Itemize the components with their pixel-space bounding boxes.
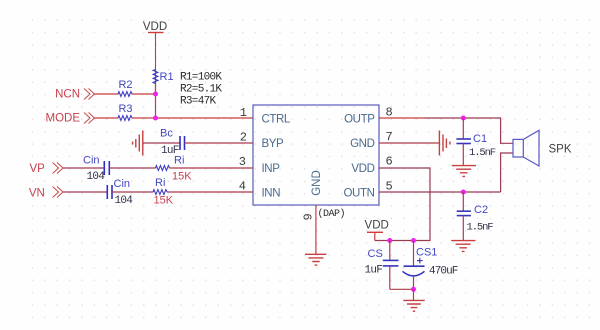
wire Bc to pin 2 BYP: [185, 142, 254, 144]
wire to supply ground: [413, 289, 415, 300]
wire MODE to R3: [95, 117, 119, 119]
resistor Ri (INN row): [153, 177, 174, 207]
svg-text:15K: 15K: [154, 195, 174, 207]
svg-text:1.5nF: 1.5nF: [467, 222, 494, 234]
junction OUTN/C2: [461, 190, 466, 195]
wire pin 5 OUTN: [379, 191, 501, 193]
svg-text:1: 1: [240, 106, 247, 120]
svg-text:C1: C1: [473, 133, 487, 145]
svg-text:BYP: BYP: [262, 138, 285, 150]
svg-text:Cin: Cin: [83, 155, 100, 167]
svg-text:15K: 15K: [172, 171, 192, 183]
port NCN: [55, 89, 94, 101]
svg-text:CTRL: CTRL: [262, 114, 291, 126]
resistor R3: [118, 103, 133, 120]
power flag VDD (bottom): [365, 220, 389, 241]
port VP: [29, 163, 63, 176]
wire OUTN node up to speaker: [501, 153, 513, 192]
wire VDD to R1 top: [155, 33, 157, 95]
svg-text:VDD: VDD: [351, 163, 374, 175]
svg-text:1uF: 1uF: [365, 265, 383, 277]
ground at CS/CS1: [403, 300, 424, 311]
wire OUTP node to speaker corner: [463, 118, 513, 143]
svg-text:Ri: Ri: [155, 177, 165, 189]
svg-text:GND: GND: [350, 138, 374, 150]
svg-text:470uF: 470uF: [429, 266, 458, 278]
svg-text:(DAP): (DAP): [318, 208, 346, 220]
wire Ri to pin 3 INP: [170, 167, 253, 169]
svg-text:VP: VP: [29, 163, 45, 175]
wire VN to Cin: [63, 191, 107, 193]
capacitor CS: [365, 241, 399, 290]
resistor Ri (INP row): [156, 155, 193, 183]
capacitor Cin (INP row): [83, 155, 109, 184]
svg-text:R3: R3: [118, 103, 132, 115]
power flag VDD (top): [143, 21, 167, 33]
svg-text:INP: INP: [262, 163, 281, 175]
wire R2 to node: [132, 93, 155, 95]
svg-text:104: 104: [87, 171, 106, 183]
svg-text:R2=5.1K: R2=5.1K: [180, 84, 222, 96]
junction OUTP/C1: [461, 116, 466, 121]
svg-text:R1: R1: [160, 71, 174, 83]
port VN: [29, 187, 63, 200]
wire pin 7 GND: [379, 142, 439, 144]
svg-text:104: 104: [115, 195, 134, 207]
ground (sideways) at pin 7: [439, 131, 450, 156]
wire R1 bottom to MODE node: [155, 85, 157, 119]
capacitor Bc: [160, 128, 185, 158]
wire CS/CS1 bottoms: [390, 288, 414, 290]
svg-text:2: 2: [240, 131, 247, 145]
svg-text:R2: R2: [118, 79, 132, 91]
svg-text:MODE: MODE: [46, 113, 81, 125]
wire pin 8 OUTP: [379, 117, 424, 119]
svg-text:CS: CS: [368, 248, 383, 260]
ground at C2: [451, 241, 475, 252]
svg-text:Ri: Ri: [174, 155, 184, 167]
speaker SPK: [513, 130, 572, 166]
junction MODE/R1 node: [153, 116, 158, 121]
wire pin 9 to ground: [315, 205, 317, 254]
junction CS1 bottom: [411, 287, 416, 292]
junction CS1 top: [411, 238, 416, 243]
wire pin 6 VDD to supply node: [375, 168, 430, 241]
ground at DAP: [305, 254, 326, 265]
wire ground to Bc: [143, 142, 180, 144]
wire Ri to pin 4 INN: [167, 191, 253, 193]
svg-text:1.5nF: 1.5nF: [469, 147, 496, 159]
svg-text:C2: C2: [474, 204, 488, 216]
op-amp U1 (audio amplifier IC): [253, 105, 379, 205]
wire R3 to pin 1 CTRL: [132, 117, 253, 119]
svg-text:VDD: VDD: [365, 220, 389, 232]
svg-text:OUTN: OUTN: [344, 188, 375, 200]
resistor R1: [153, 70, 173, 84]
svg-text:GND: GND: [311, 170, 323, 196]
wire Cin to Ri (INN row): [112, 191, 153, 193]
svg-text:OUTP: OUTP: [344, 114, 375, 126]
svg-text:R1=100K: R1=100K: [180, 72, 222, 84]
capacitor C1: [456, 118, 495, 166]
svg-text:3: 3: [239, 155, 246, 169]
ground at C1: [452, 166, 476, 177]
svg-text:VDD: VDD: [143, 21, 167, 33]
wire NCN to R2: [95, 93, 119, 95]
svg-text:NCN: NCN: [55, 89, 80, 101]
junction CS top: [387, 238, 392, 243]
capacitor C2: [457, 192, 494, 241]
svg-text:R3=47K: R3=47K: [180, 96, 217, 108]
svg-text:9: 9: [302, 213, 316, 220]
wire VP to Cin: [63, 167, 104, 169]
svg-text:5: 5: [386, 179, 393, 193]
annotation R1/R2/R3 values: [180, 72, 222, 108]
wire Cin to Ri: [109, 167, 155, 169]
port MODE: [46, 113, 95, 125]
svg-text:VN: VN: [29, 188, 45, 200]
resistor R2: [118, 79, 133, 96]
svg-text:4: 4: [239, 180, 246, 194]
svg-text:CS1: CS1: [416, 247, 437, 259]
svg-text:SPK: SPK: [549, 143, 572, 155]
svg-text:Cin: Cin: [114, 178, 131, 190]
svg-text:Bc: Bc: [160, 128, 173, 140]
svg-text:INN: INN: [262, 188, 281, 200]
svg-text:6: 6: [386, 155, 393, 169]
capacitor Cin (INN row): [107, 178, 133, 207]
svg-text:7: 7: [386, 130, 393, 144]
junction NCN/R1 node: [153, 92, 158, 97]
ground (sideways) at Bc: [133, 131, 143, 156]
capacitor CS1 (electrolytic): [403, 241, 458, 290]
